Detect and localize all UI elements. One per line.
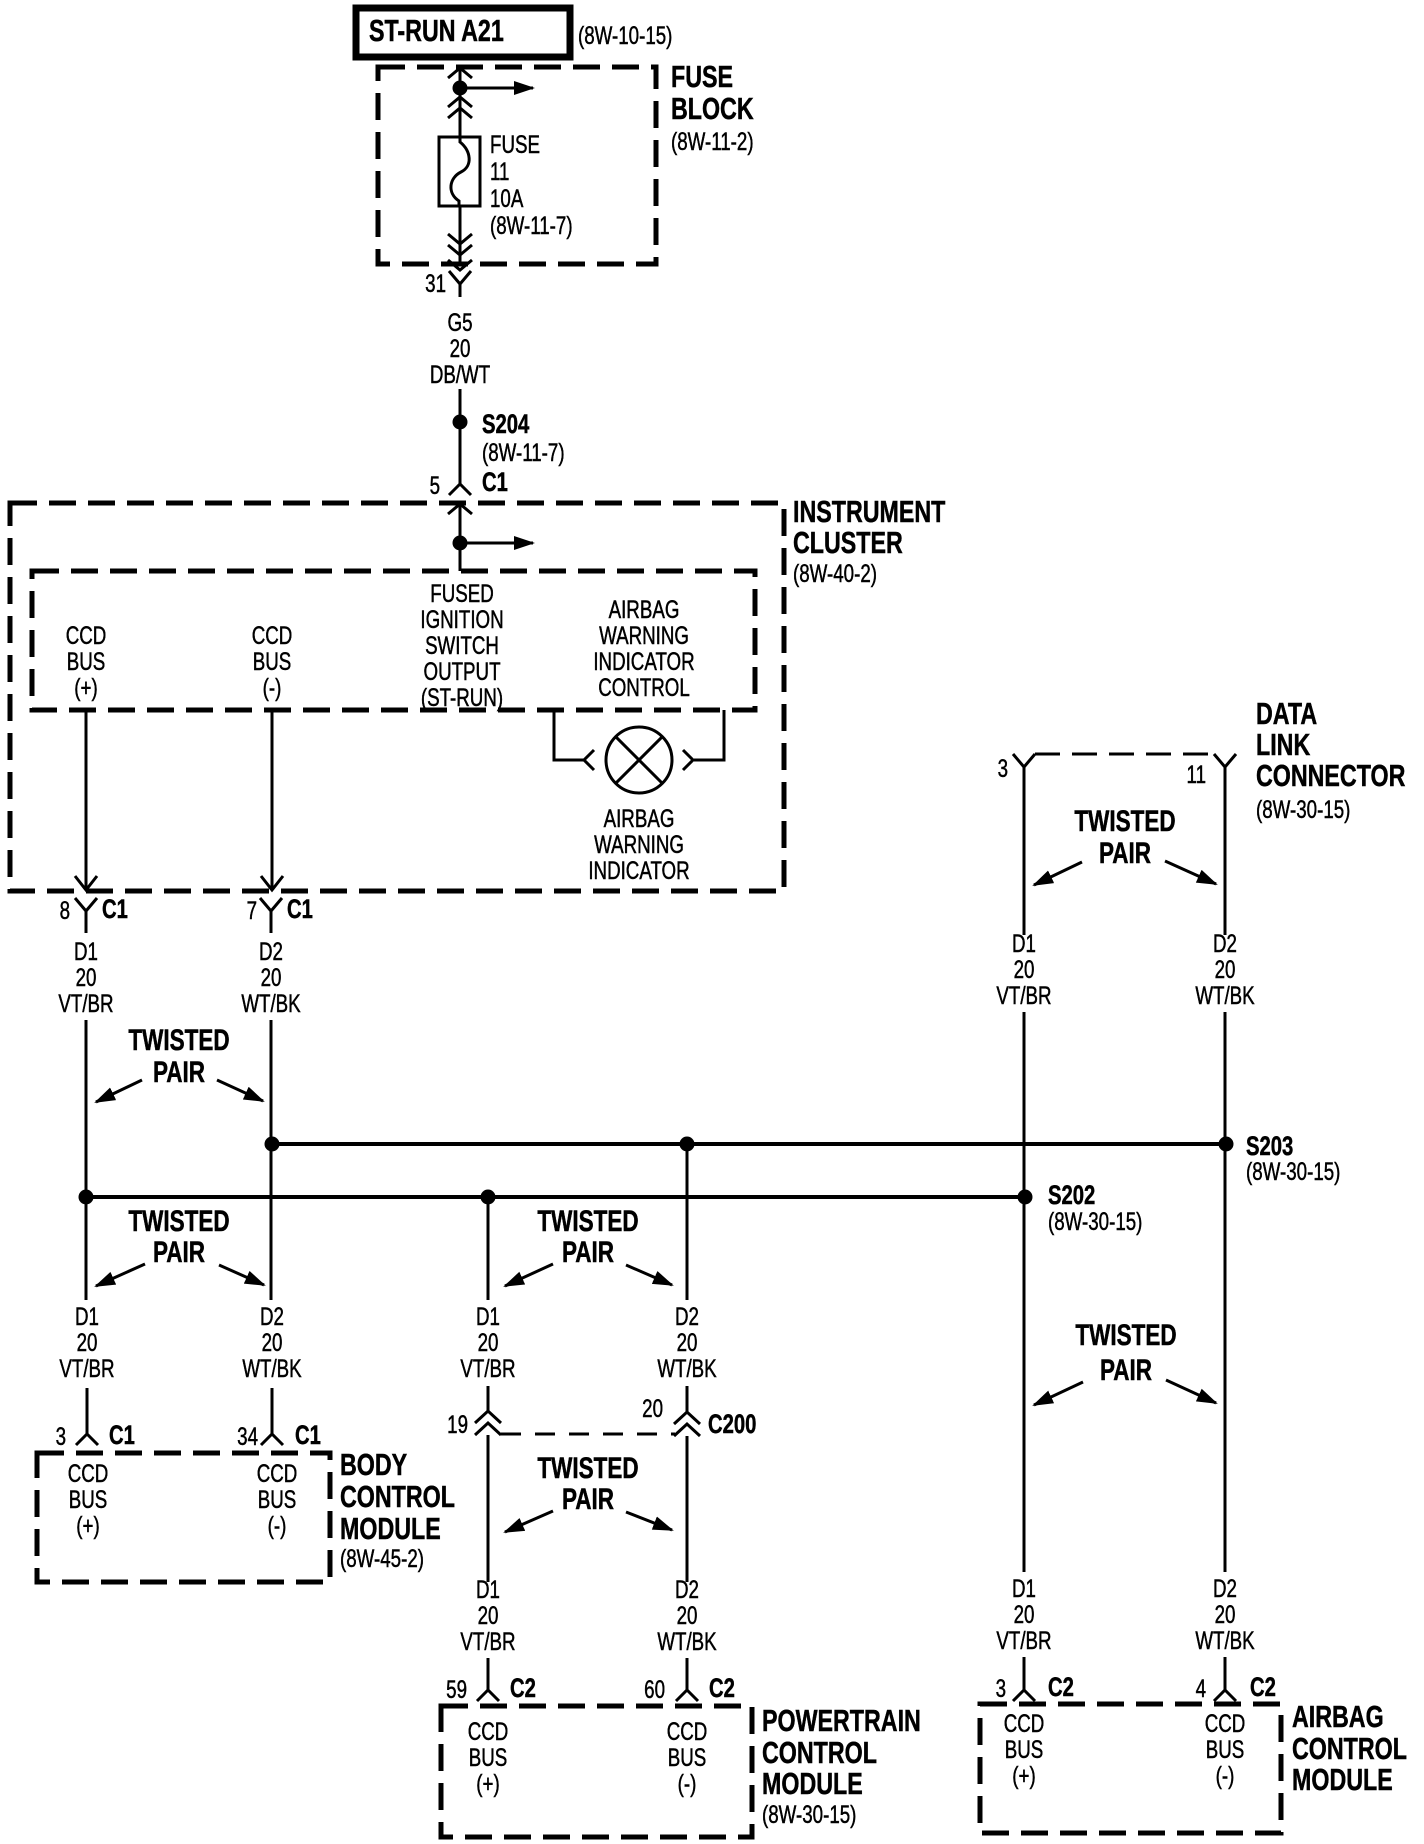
svg-text:BUS: BUS [69,1485,108,1513]
svg-text:3: 3 [998,754,1008,782]
svg-text:(8W-11-7): (8W-11-7) [490,211,573,239]
svg-text:WT/BK: WT/BK [1195,981,1255,1009]
svg-text:20: 20 [77,1328,98,1356]
svg-text:(-): (-) [678,1769,697,1797]
svg-text:WT/BK: WT/BK [657,1627,717,1655]
svg-text:D2: D2 [1213,929,1237,957]
svg-text:7: 7 [247,896,257,924]
svg-text:TWISTED: TWISTED [128,1023,229,1057]
svg-text:20: 20 [642,1394,663,1422]
svg-text:(+): (+) [76,1511,99,1539]
svg-text:D2: D2 [260,1302,284,1330]
svg-text:5: 5 [430,471,440,499]
svg-text:(ST-RUN): (ST-RUN) [421,683,503,711]
svg-text:TWISTED: TWISTED [537,1451,638,1485]
svg-text:59: 59 [446,1675,467,1703]
svg-text:C2: C2 [510,1673,536,1704]
svg-text:20: 20 [1215,1600,1236,1628]
svg-text:CONTROL: CONTROL [1292,1731,1407,1766]
svg-text:CLUSTER: CLUSTER [793,525,903,560]
svg-text:TWISTED: TWISTED [537,1204,638,1238]
svg-text:TWISTED: TWISTED [1074,804,1175,838]
svg-text:D2: D2 [675,1302,699,1330]
svg-text:11: 11 [490,157,509,185]
svg-text:INSTRUMENT: INSTRUMENT [793,494,946,529]
svg-text:D1: D1 [75,1302,99,1330]
svg-text:D2: D2 [259,937,283,965]
svg-text:(8W-30-15): (8W-30-15) [762,1800,856,1828]
svg-text:PAIR: PAIR [562,1235,614,1269]
svg-text:3: 3 [996,1674,1006,1702]
svg-text:20: 20 [478,1601,499,1629]
svg-text:VT/BR: VT/BR [996,1626,1051,1654]
svg-text:CCD: CCD [66,621,107,649]
svg-text:(-): (-) [1216,1761,1235,1789]
svg-text:FUSED: FUSED [430,579,493,607]
svg-text:MODULE: MODULE [762,1766,863,1801]
svg-text:(+): (+) [476,1769,499,1797]
svg-text:WARNING: WARNING [594,830,684,858]
svg-text:19: 19 [447,1410,468,1438]
svg-text:C200: C200 [708,1409,756,1440]
svg-text:D2: D2 [1213,1574,1237,1602]
svg-text:VT/BR: VT/BR [460,1627,515,1655]
svg-text:11: 11 [1187,760,1206,788]
svg-text:WT/BK: WT/BK [657,1354,717,1382]
svg-text:20: 20 [261,963,282,991]
svg-text:ST-RUN A21: ST-RUN A21 [369,13,504,48]
svg-text:20: 20 [76,963,97,991]
svg-text:31: 31 [425,269,446,297]
svg-text:TWISTED: TWISTED [1075,1318,1176,1352]
svg-text:WT/BK: WT/BK [1195,1626,1255,1654]
svg-text:(8W-40-2): (8W-40-2) [793,559,877,587]
svg-text:SWITCH: SWITCH [425,631,499,659]
svg-text:DB/WT: DB/WT [430,360,490,388]
svg-text:VT/BR: VT/BR [460,1354,515,1382]
svg-text:10A: 10A [490,184,524,212]
svg-text:CCD: CCD [68,1459,109,1487]
svg-text:WT/BK: WT/BK [241,989,301,1017]
svg-text:INDICATOR: INDICATOR [593,647,694,675]
svg-text:(8W-11-7): (8W-11-7) [482,438,565,466]
svg-text:(-): (-) [263,673,282,701]
svg-text:POWERTRAIN: POWERTRAIN [762,1703,921,1738]
svg-text:20: 20 [450,334,471,362]
svg-text:20: 20 [478,1328,499,1356]
svg-text:AIRBAG: AIRBAG [604,804,675,832]
svg-text:D1: D1 [476,1575,500,1603]
svg-text:20: 20 [1215,955,1236,983]
svg-text:CCD: CCD [257,1459,298,1487]
svg-text:20: 20 [677,1601,698,1629]
svg-text:20: 20 [677,1328,698,1356]
svg-text:C2: C2 [1048,1672,1074,1703]
svg-text:CONTROL: CONTROL [762,1735,877,1770]
svg-text:CCD: CCD [667,1717,708,1745]
svg-text:S202: S202 [1048,1180,1095,1211]
svg-text:FUSE: FUSE [490,130,540,158]
svg-text:BUS: BUS [258,1485,297,1513]
svg-text:S204: S204 [482,409,530,440]
svg-text:C1: C1 [295,1420,321,1451]
svg-text:BUS: BUS [67,647,106,675]
svg-text:(8W-11-2): (8W-11-2) [671,127,754,155]
svg-text:(+): (+) [1012,1761,1035,1789]
svg-text:(8W-30-15): (8W-30-15) [1048,1207,1142,1235]
svg-text:CONTROL: CONTROL [598,673,690,701]
svg-text:BUS: BUS [1005,1735,1044,1763]
svg-text:20: 20 [1014,1600,1035,1628]
svg-text:FUSE: FUSE [671,59,733,94]
svg-text:CCD: CCD [1205,1709,1246,1737]
svg-text:4: 4 [1196,1674,1206,1702]
svg-text:CONNECTOR: CONNECTOR [1256,758,1406,793]
svg-text:BUS: BUS [469,1743,508,1771]
svg-text:AIRBAG: AIRBAG [609,595,680,623]
svg-text:INDICATOR: INDICATOR [588,856,689,884]
svg-text:DATA: DATA [1256,696,1317,731]
svg-text:BUS: BUS [1206,1735,1245,1763]
svg-text:C1: C1 [287,894,313,925]
svg-text:34: 34 [237,1422,258,1450]
svg-text:20: 20 [262,1328,283,1356]
svg-text:LINK: LINK [1256,727,1310,762]
svg-text:20: 20 [1014,955,1035,983]
svg-text:PAIR: PAIR [1100,1353,1152,1387]
svg-text:C1: C1 [109,1420,135,1451]
svg-text:D1: D1 [476,1302,500,1330]
svg-text:IGNITION: IGNITION [420,605,503,633]
svg-text:3: 3 [56,1422,66,1450]
svg-text:C1: C1 [482,467,508,498]
svg-text:VT/BR: VT/BR [58,989,113,1017]
svg-text:VT/BR: VT/BR [59,1354,114,1382]
svg-text:PAIR: PAIR [153,1055,205,1089]
svg-text:BUS: BUS [668,1743,707,1771]
svg-text:BUS: BUS [253,647,292,675]
svg-text:D1: D1 [1012,929,1036,957]
svg-text:AIRBAG: AIRBAG [1292,1699,1384,1734]
svg-text:WARNING: WARNING [599,621,689,649]
svg-text:CCD: CCD [1004,1709,1045,1737]
svg-text:G5: G5 [448,308,473,336]
svg-text:D1: D1 [74,937,98,965]
svg-text:CCD: CCD [468,1717,509,1745]
svg-text:PAIR: PAIR [1099,836,1151,870]
svg-text:8: 8 [60,896,70,924]
svg-text:TWISTED: TWISTED [128,1204,229,1238]
svg-text:VT/BR: VT/BR [996,981,1051,1009]
svg-text:MODULE: MODULE [340,1511,441,1546]
svg-text:(-): (-) [268,1511,287,1539]
svg-text:(8W-45-2): (8W-45-2) [340,1544,424,1572]
svg-text:MODULE: MODULE [1292,1762,1393,1797]
svg-text:C2: C2 [1250,1672,1276,1703]
svg-text:D2: D2 [675,1575,699,1603]
svg-text:(8W-30-15): (8W-30-15) [1246,1157,1340,1185]
svg-text:PAIR: PAIR [153,1235,205,1269]
svg-text:(8W-30-15): (8W-30-15) [1256,795,1350,823]
svg-text:C2: C2 [709,1673,735,1704]
svg-text:60: 60 [644,1675,665,1703]
svg-text:(+): (+) [74,673,97,701]
svg-text:OUTPUT: OUTPUT [423,657,500,685]
svg-text:D1: D1 [1012,1574,1036,1602]
svg-text:CCD: CCD [252,621,293,649]
svg-text:BODY: BODY [340,1447,407,1482]
svg-text:CONTROL: CONTROL [340,1479,455,1514]
svg-text:C1: C1 [102,894,128,925]
svg-text:BLOCK: BLOCK [671,91,754,126]
svg-text:PAIR: PAIR [562,1482,614,1516]
svg-text:WT/BK: WT/BK [242,1354,302,1382]
svg-text:(8W-10-15): (8W-10-15) [578,21,672,49]
